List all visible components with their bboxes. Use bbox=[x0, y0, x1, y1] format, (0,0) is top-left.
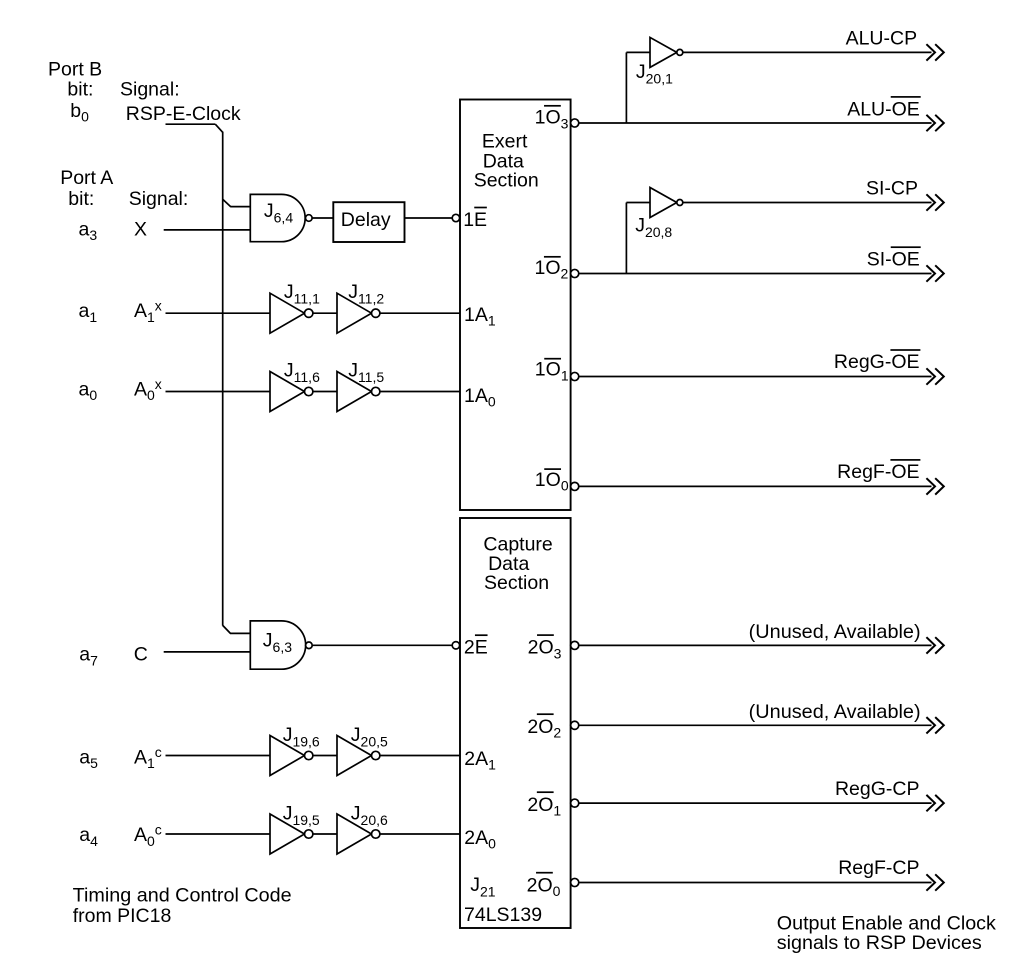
svg-text:from PIC18: from PIC18 bbox=[73, 905, 172, 927]
svg-text:J: J bbox=[263, 629, 273, 651]
svg-text:0: 0 bbox=[81, 109, 89, 125]
svg-text:ALU-OE: ALU-OE bbox=[847, 98, 920, 120]
inverter J11,5 bbox=[337, 359, 384, 411]
svg-text:(Unused, Available): (Unused, Available) bbox=[749, 621, 921, 643]
bubble J6,4 output bbox=[306, 215, 313, 222]
svg-text:5: 5 bbox=[90, 755, 98, 771]
label a1 bbox=[79, 300, 98, 325]
label b0 bbox=[70, 100, 89, 125]
svg-text:1E: 1E bbox=[463, 209, 487, 231]
pin label 2E bbox=[464, 634, 488, 658]
svg-text:RegG-OE: RegG-OE bbox=[834, 351, 920, 373]
svg-text:Signal:: Signal: bbox=[129, 188, 189, 210]
inverter J11,2 bbox=[337, 281, 384, 333]
svg-text:b: b bbox=[70, 100, 81, 122]
svg-text:20,5: 20,5 bbox=[361, 734, 388, 750]
svg-text:J: J bbox=[348, 281, 358, 303]
svg-text:A: A bbox=[134, 379, 147, 401]
pin label 1O3 bbox=[535, 105, 569, 131]
svg-text:1: 1 bbox=[561, 367, 569, 383]
wire 1O3 / ALU-OE line bbox=[579, 122, 932, 124]
label Port A bbox=[60, 167, 113, 189]
svg-text:RegF-CP: RegF-CP bbox=[838, 857, 919, 879]
svg-text:Section: Section bbox=[474, 170, 539, 192]
svg-text:74LS139: 74LS139 bbox=[464, 904, 542, 926]
arrow RegG-OE bbox=[926, 368, 943, 384]
label X bbox=[134, 218, 147, 240]
bubble 2O3 output bbox=[571, 641, 579, 649]
svg-text:1O: 1O bbox=[535, 257, 561, 279]
decoder J21 74LS139 Exert section body bbox=[460, 100, 571, 511]
label SI-OE bbox=[867, 246, 921, 270]
wire bbox=[313, 312, 337, 314]
label A0x bbox=[134, 376, 162, 403]
label bit: (Port B) bbox=[67, 78, 93, 100]
inverter J19,6 bbox=[270, 724, 320, 776]
NAND gate J6,4 bbox=[250, 194, 305, 241]
svg-text:J: J bbox=[635, 215, 645, 237]
svg-text:a: a bbox=[79, 379, 90, 401]
pin label 1O0 bbox=[535, 468, 569, 493]
wire to 1A1 bbox=[380, 312, 460, 314]
NAND gate J6,3 bbox=[250, 621, 305, 669]
svg-text:SI-CP: SI-CP bbox=[866, 178, 918, 200]
wire A1c input bbox=[166, 755, 271, 757]
wire 1O2 / SI-OE line bbox=[579, 273, 932, 275]
label a7 bbox=[79, 644, 98, 669]
label ALU-CP bbox=[846, 28, 918, 50]
label RegG-CP bbox=[835, 778, 920, 800]
inverter J11,1 bbox=[270, 281, 320, 333]
label a0 bbox=[79, 379, 98, 404]
svg-text:J: J bbox=[348, 359, 358, 381]
label Signal: (Port A) bbox=[129, 188, 189, 210]
pin label 2A1 bbox=[464, 748, 496, 773]
svg-text:2O: 2O bbox=[527, 794, 553, 816]
arrow RegG-CP bbox=[926, 795, 943, 811]
svg-text:2O: 2O bbox=[527, 716, 553, 738]
wire SI-CP line bbox=[683, 202, 932, 204]
svg-text:0: 0 bbox=[561, 478, 569, 494]
svg-text:Section: Section bbox=[484, 572, 549, 594]
label a5 bbox=[79, 746, 98, 771]
wire A0c input bbox=[166, 833, 271, 835]
svg-text:X: X bbox=[134, 218, 147, 240]
bubble 1O2 output bbox=[571, 269, 579, 277]
inverter J19,5 bbox=[270, 802, 320, 854]
bubble 1O0 output bbox=[571, 482, 579, 490]
svg-text:J: J bbox=[351, 724, 361, 746]
wire ALU-CP line bbox=[683, 51, 932, 53]
wire J6,4 to Delay bbox=[312, 217, 333, 219]
label C bbox=[134, 644, 148, 666]
label Output Enable and Clock signals to RSP Devices bbox=[777, 913, 996, 954]
svg-text:0: 0 bbox=[89, 387, 97, 403]
pin label 1A1 bbox=[464, 304, 496, 329]
svg-text:c: c bbox=[155, 822, 162, 838]
svg-text:A: A bbox=[134, 300, 147, 322]
svg-text:1O: 1O bbox=[535, 359, 561, 381]
arrow ALU-CP bbox=[926, 44, 943, 60]
inverter J20,5 bbox=[337, 724, 388, 776]
inverter J20,6 bbox=[337, 802, 388, 854]
bubble 2O0 output bbox=[571, 878, 579, 886]
wire unused 2O2 line bbox=[579, 724, 932, 726]
label 74LS139 bbox=[464, 904, 542, 926]
bubble 1O1 output bbox=[571, 372, 579, 380]
svg-text:3: 3 bbox=[89, 227, 97, 243]
wire bbox=[313, 391, 337, 393]
wire Delay to 1E bbox=[405, 217, 453, 219]
label ALU-OE bbox=[847, 96, 921, 120]
bubble J6,3 output bbox=[306, 642, 313, 649]
svg-text:20,6: 20,6 bbox=[361, 812, 388, 828]
svg-text:1: 1 bbox=[89, 309, 97, 325]
label J21 bbox=[470, 874, 496, 900]
svg-text:6,3: 6,3 bbox=[273, 639, 293, 655]
svg-text:A: A bbox=[134, 746, 147, 768]
label RegF-CP bbox=[838, 857, 919, 879]
svg-text:(Unused, Available): (Unused, Available) bbox=[749, 701, 921, 723]
inverter J20,1 bbox=[636, 37, 683, 86]
arrow RegF-OE bbox=[926, 478, 943, 494]
Delay box bbox=[333, 202, 404, 242]
svg-text:2A: 2A bbox=[464, 748, 488, 770]
svg-text:RegG-CP: RegG-CP bbox=[835, 778, 920, 800]
svg-text:2O: 2O bbox=[527, 874, 553, 896]
svg-text:2A: 2A bbox=[464, 827, 488, 849]
svg-text:Signal:: Signal: bbox=[120, 78, 180, 100]
wire X input bbox=[164, 229, 251, 231]
wire RSP-E-Clock vertical bbox=[222, 132, 224, 626]
svg-text:Exert: Exert bbox=[482, 131, 528, 153]
inverter J11,6 bbox=[270, 359, 320, 411]
svg-text:4: 4 bbox=[90, 833, 98, 849]
svg-text:x: x bbox=[155, 376, 162, 392]
svg-text:2O: 2O bbox=[528, 637, 554, 659]
label A1x bbox=[134, 298, 162, 325]
wire bbox=[313, 833, 337, 835]
svg-text:a: a bbox=[79, 644, 90, 666]
label RegF-OE bbox=[837, 459, 920, 483]
svg-text:0: 0 bbox=[488, 836, 496, 852]
pin label 2O1 bbox=[527, 791, 561, 818]
wire to 2A1 bbox=[380, 755, 460, 757]
bubble 2E input bbox=[452, 642, 459, 649]
arrow ALU-OE bbox=[926, 115, 943, 131]
wire A0x input bbox=[166, 391, 271, 393]
decoder J21 74LS139 Capture section body bbox=[460, 518, 571, 928]
label Timing and Control Code from PIC18 bbox=[73, 885, 292, 927]
svg-text:7: 7 bbox=[90, 652, 98, 668]
svg-text:A: A bbox=[134, 824, 147, 846]
svg-text:C: C bbox=[134, 644, 148, 666]
svg-text:J: J bbox=[636, 61, 646, 83]
wire RegG-OE line bbox=[579, 376, 932, 378]
wire RegF-CP line bbox=[579, 882, 932, 884]
label RSP-E-Clock bbox=[126, 103, 241, 125]
label bit: (Port A) bbox=[68, 188, 94, 210]
label (Unused, Available) lower bbox=[749, 701, 921, 723]
bubble 2O1 output bbox=[571, 799, 579, 807]
bubble 2O2 output bbox=[571, 721, 579, 729]
bubble 1E input bbox=[452, 214, 459, 221]
svg-text:1O: 1O bbox=[535, 469, 561, 491]
label Exert Data Section bbox=[474, 131, 539, 192]
svg-text:a: a bbox=[79, 746, 90, 768]
svg-text:20,8: 20,8 bbox=[645, 224, 672, 240]
wire C input bbox=[164, 651, 251, 653]
arrow unused 2O3 bbox=[926, 637, 943, 653]
svg-text:2: 2 bbox=[561, 265, 569, 281]
label Port B bbox=[48, 59, 102, 81]
svg-text:19,5: 19,5 bbox=[292, 812, 319, 828]
svg-text:RegF-OE: RegF-OE bbox=[837, 461, 919, 483]
svg-text:J: J bbox=[284, 281, 294, 303]
svg-text:RSP-E-Clock: RSP-E-Clock bbox=[126, 103, 241, 125]
svg-text:c: c bbox=[155, 744, 162, 760]
svg-text:21: 21 bbox=[480, 884, 496, 900]
wire to 2A0 bbox=[380, 833, 460, 835]
wire J6,3 to 2E bbox=[312, 644, 452, 646]
svg-text:bit:: bit: bbox=[68, 188, 94, 210]
svg-text:bit:: bit: bbox=[67, 78, 93, 100]
arrow SI-OE bbox=[926, 265, 943, 281]
label a4 bbox=[79, 824, 98, 849]
svg-text:19,6: 19,6 bbox=[292, 734, 319, 750]
svg-text:J: J bbox=[351, 802, 361, 824]
wire bbox=[313, 755, 337, 757]
svg-text:20,1: 20,1 bbox=[646, 70, 673, 86]
label SI-CP bbox=[866, 178, 918, 200]
pin label 1E bbox=[463, 207, 487, 231]
pin label 1A0 bbox=[464, 385, 496, 410]
svg-text:0: 0 bbox=[553, 883, 561, 899]
svg-text:J: J bbox=[283, 724, 293, 746]
node branch SI bbox=[626, 203, 650, 274]
label RegG-OE bbox=[834, 349, 921, 373]
svg-text:Port B: Port B bbox=[48, 59, 102, 81]
arrow unused 2O2 bbox=[926, 717, 943, 733]
wire RSP-E-Clock horizontal bbox=[166, 123, 216, 125]
svg-text:11,2: 11,2 bbox=[358, 291, 384, 307]
wire RSP-E-Clock corner bbox=[215, 124, 222, 132]
wire A1x input bbox=[166, 312, 271, 314]
svg-text:0: 0 bbox=[488, 394, 496, 410]
wire branch to J6,3 top input bbox=[223, 625, 251, 633]
label (Unused, Available) upper bbox=[749, 621, 921, 643]
wire RegF-OE line bbox=[579, 485, 932, 487]
arrow SI-CP bbox=[926, 194, 943, 210]
arrow RegF-CP bbox=[926, 874, 943, 890]
wire to 1A0 bbox=[380, 391, 460, 393]
svg-text:signals to RSP Devices: signals to RSP Devices bbox=[777, 932, 982, 954]
svg-text:Timing and Control Code: Timing and Control Code bbox=[73, 885, 292, 907]
svg-text:1: 1 bbox=[488, 313, 496, 329]
svg-text:11,1: 11,1 bbox=[294, 291, 320, 307]
pin label 1O2 bbox=[535, 256, 569, 281]
svg-text:1: 1 bbox=[553, 802, 561, 818]
svg-text:J: J bbox=[470, 874, 480, 896]
svg-text:Delay: Delay bbox=[341, 209, 391, 231]
svg-text:1A: 1A bbox=[464, 385, 488, 407]
svg-text:3: 3 bbox=[554, 645, 562, 661]
svg-text:2: 2 bbox=[553, 724, 561, 740]
svg-text:SI-OE: SI-OE bbox=[867, 249, 920, 271]
svg-text:3: 3 bbox=[561, 115, 569, 131]
label a3 bbox=[79, 218, 98, 243]
pin label 1O1 bbox=[535, 358, 569, 383]
wire branch to J6,4 top input bbox=[223, 199, 251, 206]
pin label 2A0 bbox=[464, 827, 496, 852]
bubble 1O3 output bbox=[571, 119, 579, 127]
pin label 2O0 bbox=[527, 872, 561, 899]
svg-text:6,4: 6,4 bbox=[274, 210, 294, 226]
label A1c bbox=[134, 744, 162, 771]
svg-text:ALU-CP: ALU-CP bbox=[846, 28, 918, 50]
svg-text:J: J bbox=[264, 200, 274, 222]
svg-text:J: J bbox=[283, 802, 293, 824]
svg-text:x: x bbox=[155, 298, 162, 314]
wire unused 2O3 line bbox=[579, 644, 932, 646]
svg-text:Port A: Port A bbox=[60, 167, 113, 189]
pin label 2O3 bbox=[528, 634, 562, 661]
svg-text:2E: 2E bbox=[464, 637, 488, 659]
svg-text:J: J bbox=[284, 359, 294, 381]
inverter J20,8 bbox=[635, 188, 683, 241]
svg-text:1A: 1A bbox=[464, 304, 488, 326]
label A0c bbox=[134, 822, 162, 849]
svg-text:a: a bbox=[79, 824, 90, 846]
svg-text:11,6: 11,6 bbox=[294, 369, 320, 385]
label Signal: (Port B) bbox=[120, 78, 180, 100]
pin label 2O2 bbox=[527, 713, 561, 740]
svg-text:a: a bbox=[79, 300, 90, 322]
svg-text:a: a bbox=[79, 218, 90, 240]
svg-text:11,5: 11,5 bbox=[358, 369, 384, 385]
wire RegG-CP line bbox=[579, 802, 932, 804]
svg-text:1: 1 bbox=[488, 757, 496, 773]
node branch ALU bbox=[626, 52, 650, 123]
label Capture Data Section bbox=[483, 534, 552, 594]
svg-text:1O: 1O bbox=[535, 107, 561, 129]
